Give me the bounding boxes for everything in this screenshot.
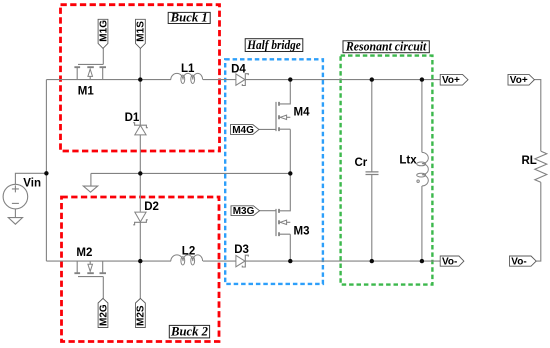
svg-text:M1G: M1G [98, 20, 109, 42]
svg-text:L2: L2 [182, 246, 195, 258]
svg-text:Cr: Cr [355, 157, 368, 169]
svg-text:Ltx: Ltx [399, 154, 417, 166]
svg-text:D2: D2 [144, 201, 159, 213]
svg-text:M2: M2 [76, 247, 92, 259]
svg-text:M1S: M1S [136, 21, 147, 42]
svg-text:D3: D3 [234, 244, 249, 256]
svg-text:Vo+: Vo+ [510, 75, 528, 86]
svg-text:Vo+: Vo+ [442, 75, 460, 86]
svg-text:L1: L1 [181, 63, 195, 75]
svg-text:Vo-: Vo- [511, 257, 526, 268]
svg-text:M4: M4 [294, 106, 311, 118]
svg-text:Vin: Vin [23, 177, 41, 189]
svg-text:D4: D4 [231, 63, 246, 75]
svg-text:M2S: M2S [136, 305, 147, 326]
svg-text:M3: M3 [294, 226, 310, 238]
svg-text:M3G: M3G [233, 206, 255, 217]
svg-text:Half bridge: Half bridge [246, 38, 301, 52]
svg-text:RL: RL [522, 155, 537, 167]
svg-text:Buck 1: Buck 1 [170, 11, 208, 25]
svg-text:M1: M1 [78, 85, 95, 97]
svg-text:Vo-: Vo- [442, 257, 457, 268]
svg-text:D1: D1 [125, 112, 140, 124]
svg-text:M2G: M2G [98, 304, 109, 326]
svg-text:Buck 2: Buck 2 [170, 324, 208, 338]
svg-text:M4G: M4G [232, 125, 254, 136]
svg-text:Resonant circuit: Resonant circuit [345, 40, 427, 54]
